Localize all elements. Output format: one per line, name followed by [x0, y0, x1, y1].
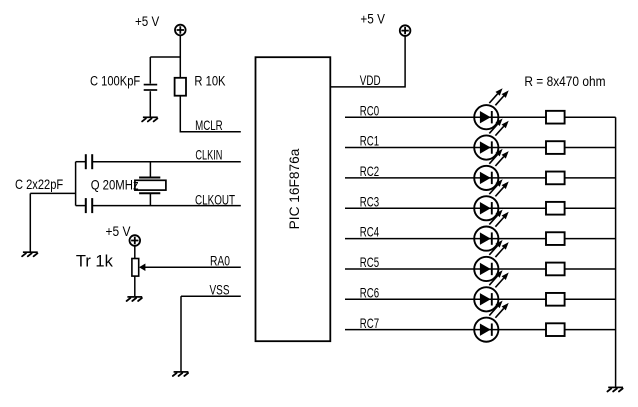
svg-text:PIC 16F876a: PIC 16F876a: [287, 148, 302, 229]
svg-text:+5 V: +5 V: [106, 223, 131, 239]
svg-text:CLKIN: CLKIN: [195, 148, 222, 163]
svg-text:RA0: RA0: [210, 253, 230, 269]
svg-text:+5 V: +5 V: [135, 13, 160, 29]
svg-text:CLKOUT: CLKOUT: [195, 192, 236, 208]
svg-text:Q 20MHz: Q 20MHz: [91, 178, 139, 193]
svg-text:RC7: RC7: [360, 315, 379, 331]
svg-text:C 100KpF: C 100KpF: [90, 73, 141, 88]
svg-text:RC3: RC3: [360, 194, 380, 210]
svg-text:RC6: RC6: [360, 285, 380, 301]
svg-text:MCLR: MCLR: [195, 117, 223, 133]
svg-text:+5 V: +5 V: [360, 10, 385, 26]
svg-text:R = 8x470 ohm: R = 8x470 ohm: [524, 73, 605, 89]
svg-text:RC4: RC4: [360, 224, 380, 240]
svg-text:C 2x22pF: C 2x22pF: [15, 177, 63, 192]
svg-text:Tr 1k: Tr 1k: [76, 253, 114, 271]
svg-text:RC1: RC1: [360, 133, 380, 149]
svg-text:RC5: RC5: [360, 254, 380, 270]
svg-text:R 10K: R 10K: [194, 74, 226, 89]
svg-text:VDD: VDD: [360, 72, 381, 88]
svg-text:VSS: VSS: [210, 282, 230, 298]
svg-text:RC2: RC2: [360, 163, 379, 179]
svg-text:RC0: RC0: [360, 103, 380, 119]
